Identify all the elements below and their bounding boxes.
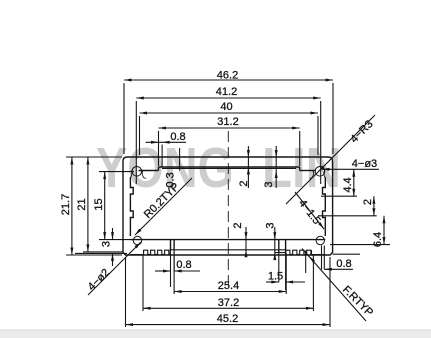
svg-text:25.4: 25.4 xyxy=(218,280,239,292)
dimension 6.4 xyxy=(330,216,390,247)
dimension 41.2 xyxy=(136,86,320,184)
leader F.RTYP xyxy=(302,249,375,322)
dimension 0.8 bottom-left xyxy=(155,250,200,287)
ceiling stub left xyxy=(139,170,159,172)
ceiling recess line xyxy=(162,167,296,169)
dimension 31.2 xyxy=(159,116,300,166)
hole bottom-left xyxy=(133,236,141,244)
dimension 0.8 top xyxy=(146,131,187,167)
top-left screw channel lip xyxy=(130,171,146,179)
hole top-right xyxy=(315,167,325,177)
dimension 2 ceiling xyxy=(238,146,250,188)
svg-text:15: 15 xyxy=(93,198,105,210)
right wall inner xyxy=(323,177,326,236)
leader 4-R3 xyxy=(286,115,376,204)
svg-text:4.4: 4.4 xyxy=(342,177,354,192)
watermark YONG LIN xyxy=(96,136,341,200)
dimension 37.2 xyxy=(143,250,313,311)
ceiling step right xyxy=(299,167,301,171)
svg-text:0.8: 0.8 xyxy=(336,258,351,270)
profile outer shell xyxy=(123,157,333,255)
svg-text:4−ø3: 4−ø3 xyxy=(352,158,377,170)
svg-text:3: 3 xyxy=(265,222,277,228)
svg-text:2: 2 xyxy=(232,222,244,228)
svg-text:46.2: 46.2 xyxy=(217,70,238,82)
dimension 3 left xyxy=(75,228,127,266)
dimension 2 right xyxy=(318,196,377,216)
label 4-Ø3 with leader xyxy=(322,158,379,171)
bottom floor + knurl sections xyxy=(130,250,325,255)
svg-text:21: 21 xyxy=(76,198,88,210)
pcb rail ledge xyxy=(130,239,325,241)
top-right screw channel lip xyxy=(310,171,326,179)
dimension 0.8 right xyxy=(322,246,361,271)
dimension 2 floor xyxy=(232,222,248,257)
svg-text:2: 2 xyxy=(238,180,250,186)
label 0.3 xyxy=(165,148,180,188)
leader 4-1.5 xyxy=(295,192,324,229)
svg-text:45.2: 45.2 xyxy=(217,313,238,325)
svg-text:40: 40 xyxy=(220,101,232,113)
svg-text:41.2: 41.2 xyxy=(216,86,237,98)
dimension 1.5 bottom xyxy=(266,253,305,290)
svg-text:2: 2 xyxy=(362,199,374,205)
svg-text:1.5: 1.5 xyxy=(268,271,283,283)
dimension 21.7 xyxy=(60,157,122,255)
rib right xyxy=(275,240,286,253)
ceiling stub right xyxy=(300,170,316,172)
svg-text:37.2: 37.2 xyxy=(218,297,239,309)
hole top-left xyxy=(132,167,142,177)
vertical center line xyxy=(227,131,229,290)
dimension 46.2 xyxy=(124,70,333,155)
leader R0.2TYP xyxy=(135,178,192,235)
dimension 3 floor xyxy=(265,222,277,260)
dimension 25.4 xyxy=(174,251,286,294)
ceiling main inner xyxy=(159,166,300,168)
dimension 40 xyxy=(140,101,319,155)
rib left xyxy=(171,240,175,250)
dimension 15 xyxy=(93,172,134,240)
dimension 4.4 xyxy=(321,169,357,196)
svg-text:3: 3 xyxy=(101,241,113,247)
svg-text:0.8: 0.8 xyxy=(170,131,185,143)
leader 4-Ø2 xyxy=(86,242,141,295)
dimension 45.2 xyxy=(126,257,331,327)
left wall inner xyxy=(130,177,133,236)
svg-text:3: 3 xyxy=(263,181,275,187)
ceiling step left xyxy=(158,167,160,171)
dimension 3 ceiling xyxy=(263,146,278,188)
svg-text:0.8: 0.8 xyxy=(176,259,191,271)
svg-text:21.7: 21.7 xyxy=(60,194,72,215)
dimension 21 xyxy=(76,157,123,252)
bottom gray strip xyxy=(0,330,431,338)
hole bottom-right xyxy=(316,236,324,244)
svg-text:31.2: 31.2 xyxy=(217,116,238,128)
